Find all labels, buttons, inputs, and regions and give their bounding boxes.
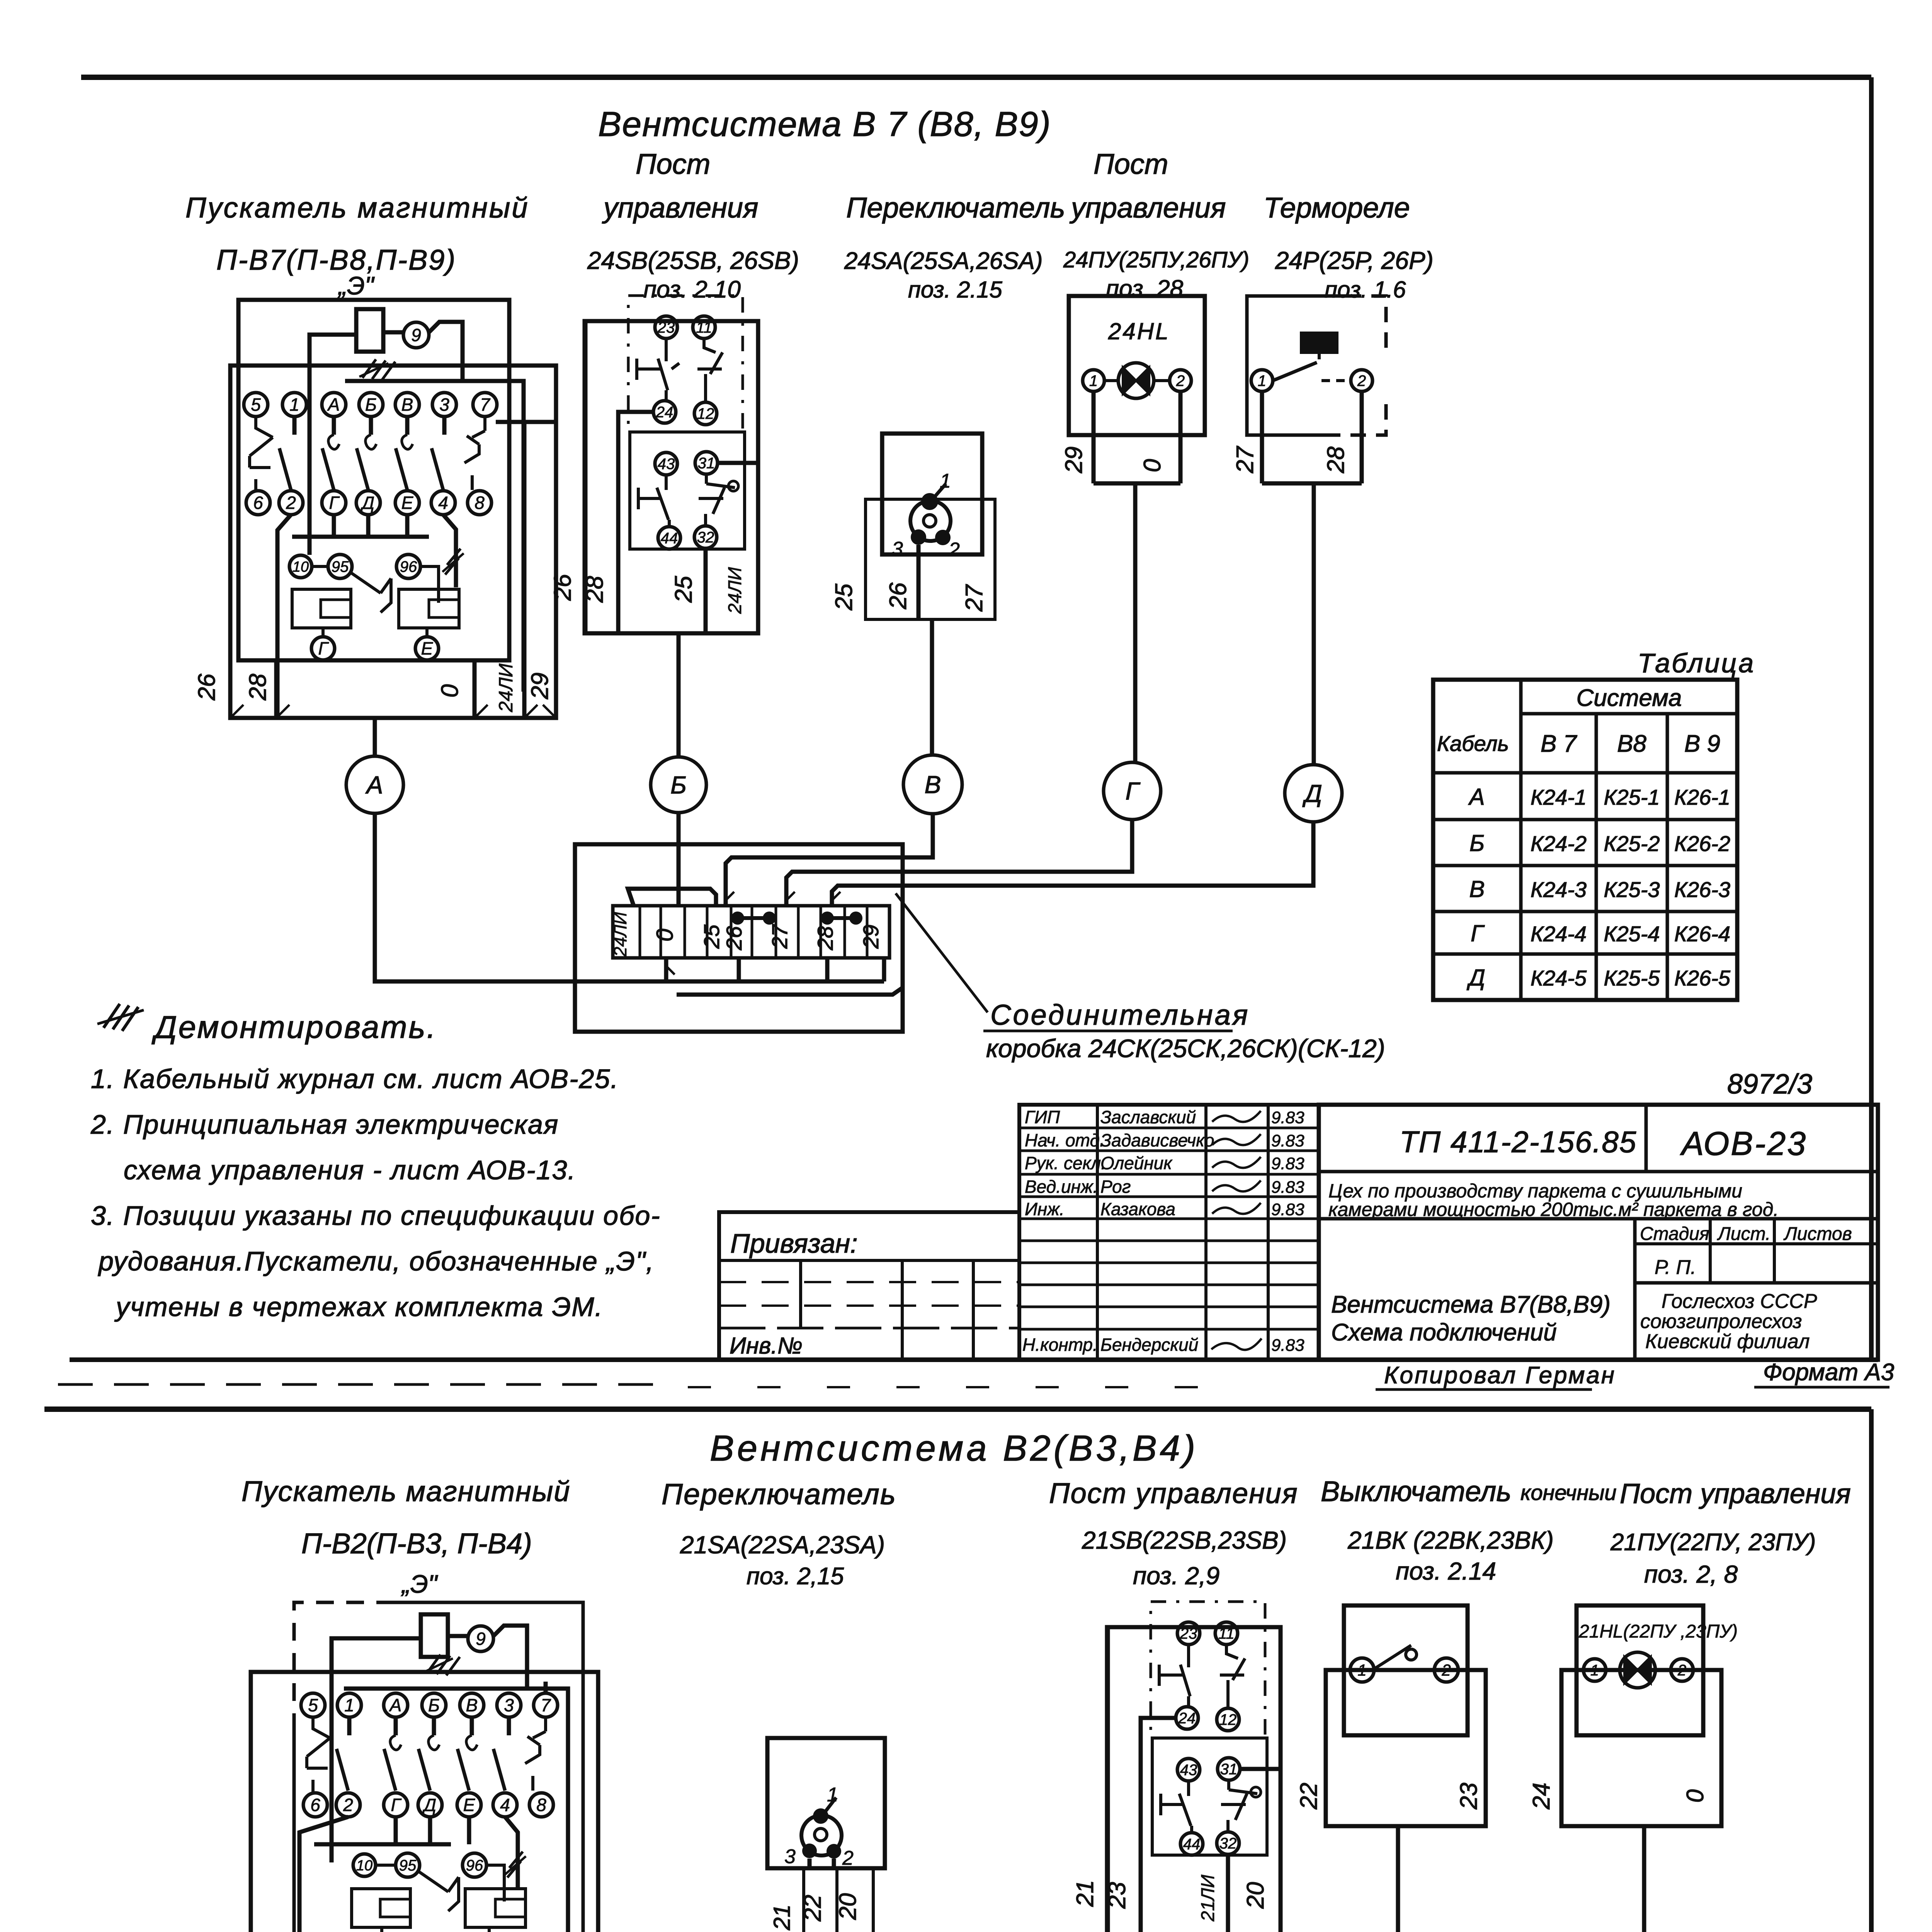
svg-text:А: А (365, 771, 383, 799)
starter П-В7 pole 7-8 NC contact (464, 417, 485, 490)
starter П-В2 bottom terminal Д (418, 1793, 442, 1817)
svg-text:Пост управления: Пост управления (1620, 1478, 1851, 1509)
svg-text:27: 27 (767, 924, 792, 949)
starter П-В7 bottom terminal 8 (468, 491, 492, 515)
svg-text:3: 3 (784, 1845, 796, 1868)
svg-text:Гослесхоз СССР: Гослесхоз СССР (1662, 1290, 1817, 1313)
svg-text:поз. 2.14: поз. 2.14 (1396, 1557, 1496, 1585)
svg-text:95: 95 (399, 1857, 417, 1874)
wire 96 П-В2 right (486, 1865, 504, 1901)
svg-text:ГИП: ГИП (1025, 1107, 1060, 1127)
svg-text:1. Кабельный журнал см. лис: 1. Кабельный журнал см. лист АОВ-25. (91, 1064, 619, 1094)
svg-text:Нач. отд.: Нач. отд. (1025, 1130, 1105, 1150)
svg-text:поз. 2, 8: поз. 2, 8 (1644, 1560, 1738, 1588)
svg-text:Пост управления: Пост управления (1049, 1477, 1298, 1509)
wire terminal 31 to right edge (718, 461, 758, 465)
svg-text:поз. 2.15: поз. 2.15 (908, 277, 1002, 303)
terminal 2 of 24Р (1351, 370, 1372, 391)
svg-text:3: 3 (892, 538, 903, 560)
svg-text:8972/3: 8972/3 (1727, 1069, 1812, 1100)
selector switch 24SA rotary symbol (910, 501, 951, 541)
heater element right П-В2 (465, 1889, 526, 1927)
starter П-В2 bottom terminal 2 (336, 1793, 360, 1817)
terminal 43 of 24SB (655, 452, 677, 475)
svg-text:Термореле: Термореле (1264, 192, 1410, 224)
junction internal jumper arc (628, 889, 716, 906)
svg-text:7: 7 (541, 1695, 551, 1715)
magnetic starter П-В2 inner box (294, 1602, 394, 1731)
svg-text:9.83: 9.83 (1271, 1131, 1304, 1150)
control post 21ПУ inner box (1577, 1605, 1703, 1735)
svg-text:К26-2: К26-2 (1674, 832, 1730, 856)
heater element right of starter (399, 589, 459, 628)
wire 24SB to cable Б (677, 633, 681, 757)
svg-text:20: 20 (835, 1893, 861, 1920)
svg-text:24ЛИ: 24ЛИ (495, 663, 517, 713)
terminal 9 of starter П-В2 coil (468, 1626, 493, 1651)
sheet 1 border frame (81, 75, 1871, 80)
svg-text:21SB(22SB,23SB): 21SB(22SB,23SB) (1082, 1526, 1287, 1554)
svg-text:3. Позиции указаны по специфи: 3. Позиции указаны по спецификации обо- (91, 1201, 661, 1231)
svg-text:9.83: 9.83 (1271, 1108, 1304, 1127)
svg-text:5: 5 (251, 395, 261, 415)
svg-text:26: 26 (722, 926, 746, 951)
cable designator Д (1285, 765, 1342, 822)
svg-text:43: 43 (658, 456, 675, 473)
jumper link 26-27 with dots (731, 912, 744, 925)
leader line to junction box label (896, 893, 988, 1012)
svg-text:1: 1 (1089, 372, 1098, 389)
svg-text:К26-1: К26-1 (1674, 785, 1730, 810)
svg-text:Инж.: Инж. (1025, 1199, 1065, 1219)
svg-text:1: 1 (1258, 372, 1266, 389)
terminal Г of starter heater (311, 637, 335, 660)
svg-text:Стадия: Стадия (1640, 1224, 1709, 1244)
svg-text:Соединительная: Соединительная (990, 999, 1250, 1031)
svg-text:Н.контр.: Н.контр. (1022, 1335, 1098, 1355)
svg-text:0: 0 (1682, 1789, 1709, 1803)
svg-text:В: В (466, 1695, 478, 1715)
signal lamp 21HL symbol (1620, 1652, 1655, 1688)
svg-text:АОВ-23: АОВ-23 (1680, 1125, 1807, 1162)
svg-text:28: 28 (245, 673, 271, 701)
svg-text:Киевский филиал: Киевский филиал (1645, 1330, 1810, 1353)
magnetic starter П-В7 inner box (238, 300, 509, 660)
svg-text:Пост: Пост (1094, 148, 1168, 180)
starter П-В7 bottom terminal Д (356, 491, 380, 515)
starter П-В2 top terminal 1 (337, 1693, 361, 1717)
svg-text:рудования.Пускатели, обозначен: рудования.Пускатели, обозначенные „Э", (98, 1246, 654, 1276)
svg-text:12: 12 (1219, 1711, 1237, 1728)
svg-text:21ЛИ: 21ЛИ (1198, 1874, 1218, 1922)
starter П-В7 top terminal 5 (244, 393, 268, 417)
svg-text:Г: Г (1126, 777, 1141, 805)
svg-text:44: 44 (1183, 1836, 1201, 1853)
svg-text:9.83: 9.83 (1271, 1200, 1304, 1219)
demontage marks on П-В2 wire (427, 1655, 460, 1675)
starter П-В2 bottom terminal 8 (529, 1793, 553, 1817)
starter П-В7 top terminal 7 (473, 393, 497, 417)
starter П-В7 bottom terminal Е (395, 491, 419, 515)
svg-text:Е: Е (421, 638, 434, 658)
terminal 43 of 21SB (1177, 1759, 1200, 1781)
svg-text:Заславский: Заславский (1100, 1107, 1196, 1127)
terminal 24 of 21SB (1176, 1707, 1198, 1729)
wire 21SB terminal 31 right (1240, 1767, 1281, 1771)
starter П-В2 pole 7-8 NC contact (525, 1717, 546, 1791)
starter П-В2 bottom terminal 6 (303, 1793, 327, 1817)
21SB lower NC contact (1161, 1781, 1192, 1833)
svg-text:Рук. секл.: Рук. секл. (1025, 1153, 1106, 1173)
svg-text:конечныи: конечныи (1520, 1480, 1617, 1505)
junction box 24СК terminal strip (613, 906, 889, 958)
svg-text:П-В2(П-В3, П-В4): П-В2(П-В3, П-В4) (301, 1527, 532, 1560)
svg-text:Г: Г (391, 1795, 401, 1815)
terminal 1 of 21ПУ (1583, 1659, 1606, 1681)
svg-text:10: 10 (356, 1857, 372, 1874)
terminal 12 of 21SB (1217, 1708, 1239, 1731)
svg-text:2: 2 (1176, 372, 1185, 389)
terminal 44 of 24SB (658, 527, 680, 549)
svg-text:А: А (389, 1695, 402, 1715)
starter П-В2 top terminal 3 (497, 1693, 521, 1717)
wire terminal 32 down (704, 548, 708, 633)
svg-text:1: 1 (344, 1695, 354, 1715)
svg-text:29: 29 (527, 673, 553, 700)
svg-text:1: 1 (1590, 1662, 1599, 1679)
svg-text:Вед.инж.: Вед.инж. (1025, 1177, 1098, 1197)
svg-text:Лист.: Лист. (1717, 1224, 1770, 1244)
svg-text:23: 23 (1104, 1882, 1131, 1909)
svg-text:25: 25 (699, 924, 724, 949)
control post 21SB outer box (1107, 1627, 1281, 1932)
svg-text:В 9: В 9 (1684, 731, 1720, 757)
svg-text:К24-1: К24-1 (1531, 785, 1587, 810)
demontage marks /// on starter top wire (362, 359, 395, 380)
wire 10 to 95 П-В2 (376, 1864, 396, 1867)
svg-text:8: 8 (536, 1795, 546, 1815)
svg-text:2: 2 (948, 539, 960, 561)
wire 21SA contact 2 down to cell (832, 1859, 836, 1868)
starter П-В7 top terminal В (395, 393, 419, 417)
jumper link 28-29 with dots (821, 912, 834, 925)
svg-text:5: 5 (308, 1695, 318, 1715)
wire terminal 7 to right bus (496, 420, 556, 424)
terminal 1 of 24Р (1251, 370, 1273, 391)
24SB NC pushbutton contact (637, 339, 679, 401)
starter П-В2 bottom terminal 4 (493, 1793, 517, 1817)
control post 21SB lower unit box (1152, 1738, 1267, 1855)
terminal 32 of 24SB (694, 526, 717, 548)
svg-text:Пускатель магнитный: Пускатель магнитный (185, 192, 529, 224)
heater element left of starter (292, 589, 351, 628)
svg-text:К25-3: К25-3 (1604, 878, 1660, 902)
control post 24ПУ box (1069, 296, 1205, 435)
cable designator Б (651, 757, 706, 813)
svg-text:„Э": „Э" (337, 271, 375, 300)
title block main frame (1319, 1105, 1878, 1360)
svg-text:Е: Е (401, 493, 414, 513)
starter П-В2 bottom terminal Е (457, 1793, 481, 1817)
wire terminal 24 to core 28 (618, 412, 653, 633)
svg-text:21НL(22ПУ ,23ПУ): 21НL(22ПУ ,23ПУ) (1578, 1621, 1738, 1642)
svg-text:Привязан:: Привязан: (730, 1228, 858, 1259)
svg-text:Д: Д (360, 493, 374, 513)
svg-text:К25-4: К25-4 (1604, 922, 1660, 946)
svg-text:25: 25 (670, 576, 697, 603)
wire coil left to vertical drop (310, 335, 356, 555)
starter П-В2 top terminal В (460, 1693, 484, 1717)
21ВК switch lever (1375, 1645, 1417, 1668)
svg-text:32: 32 (697, 529, 714, 546)
svg-text:26: 26 (194, 673, 220, 701)
svg-text:21ВК (22ВК,23ВК): 21ВК (22ВК,23ВК) (1347, 1526, 1554, 1554)
svg-text:„Э": „Э" (401, 1570, 438, 1598)
starter auxiliary terminal 96 (396, 554, 420, 578)
svg-text:9: 9 (411, 325, 421, 345)
svg-text:К25-5: К25-5 (1604, 966, 1660, 990)
21SB NO pushbutton contact (1220, 1645, 1245, 1708)
svg-text:камерами мощностью 200тыс.м² п: камерами мощностью 200тыс.м² паркета в г… (1328, 1199, 1779, 1220)
svg-text:23: 23 (1456, 1783, 1482, 1810)
svg-text:6: 6 (253, 493, 263, 513)
terminal 1 of 24ПУ (1083, 370, 1104, 391)
21SA terminal cells (804, 1868, 873, 1932)
svg-text:Рог: Рог (1100, 1177, 1131, 1197)
wires 24Р terminals down to bracket (1262, 391, 1362, 764)
svg-text:К24-2: К24-2 (1531, 832, 1587, 856)
svg-text:24ПУ(25ПУ,26ПУ): 24ПУ(25ПУ,26ПУ) (1063, 247, 1249, 272)
svg-text:28: 28 (1323, 446, 1349, 473)
svg-text:Г: Г (329, 493, 340, 513)
wire core 26 left side of 24SB (583, 321, 588, 633)
svg-text:2. Принципиальная электричес: 2. Принципиальная электрическая (90, 1109, 559, 1139)
svg-text:Вентсистема В7(В8,В9): Вентсистема В7(В8,В9) (1331, 1291, 1611, 1318)
24SB NO pushbutton contact (697, 339, 723, 402)
svg-text:32: 32 (1219, 1835, 1237, 1852)
svg-text:А: А (1468, 784, 1485, 810)
svg-text:2: 2 (1677, 1662, 1686, 1679)
junction box 24СК outer box (575, 844, 903, 1032)
svg-text:95: 95 (332, 558, 349, 575)
svg-text:22: 22 (1296, 1783, 1322, 1810)
svg-text:Олейник: Олейник (1100, 1153, 1173, 1173)
cable designator А (346, 756, 403, 813)
wires 24ПУ terminals down to bracket (1094, 391, 1180, 762)
terminal 11 of 24SB (693, 316, 715, 338)
starter auxiliary terminal 95 (328, 554, 352, 578)
svg-text:управления: управления (1069, 192, 1226, 224)
svg-text:24Р(25Р, 26Р): 24Р(25Р, 26Р) (1275, 247, 1434, 274)
magnetic starter П-В2 outer box (251, 1672, 598, 1932)
wire П-В2 terminal 7 up (544, 1682, 548, 1693)
selector switch 24SA upper box (882, 434, 982, 554)
wire 21SA contact 3 down to cell (808, 1859, 812, 1868)
24SB lower NO contact with roller (699, 474, 735, 526)
svg-text:31: 31 (698, 455, 715, 472)
svg-text:Переключатель: Переключатель (662, 1478, 896, 1511)
svg-text:В: В (1469, 876, 1485, 902)
svg-text:Выключатель: Выключатель (1321, 1475, 1511, 1507)
svg-text:К26-3: К26-3 (1674, 878, 1730, 902)
svg-text:24SB(25SB, 26SB): 24SB(25SB, 26SB) (587, 247, 799, 274)
svg-text:2: 2 (842, 1847, 854, 1869)
svg-text:9.83: 9.83 (1271, 1178, 1304, 1197)
wire horizontal bus П-В2 (344, 1689, 568, 1932)
terminal 1 of 21ВК (1350, 1658, 1374, 1682)
svg-text:поз. 2,15: поз. 2,15 (747, 1563, 844, 1590)
svg-text:24: 24 (1528, 1783, 1555, 1810)
starter auxiliary terminal 10 (289, 555, 312, 578)
starter П-В7 pole 5-6 NC contact (250, 417, 273, 491)
svg-text:24SA(25SA,26SA): 24SA(25SA,26SA) (844, 248, 1043, 274)
24SB lower NC contact (638, 475, 669, 527)
selector switch 21SA box (767, 1738, 885, 1868)
wire cable Г into strip terminal 27 (786, 820, 1132, 906)
svg-text:Демонтировать.: Демонтировать. (151, 1010, 437, 1045)
wire 24SA to cable В (930, 619, 934, 756)
svg-text:96: 96 (466, 1857, 483, 1874)
terminal 9 of starter coil (403, 322, 429, 348)
svg-text:0: 0 (437, 684, 463, 697)
starter П-В7 top terminal Б (359, 393, 383, 417)
junction below-strip wires (666, 958, 884, 981)
svg-text:В: В (925, 770, 941, 798)
svg-text:20: 20 (1242, 1882, 1269, 1909)
terminal 31 of 24SB (695, 452, 718, 474)
svg-text:Кабель: Кабель (1437, 731, 1509, 756)
svg-text:29: 29 (859, 925, 883, 949)
svg-text:Таблица: Таблица (1638, 648, 1755, 678)
terminal 23 of 21SB (1177, 1622, 1200, 1645)
svg-text:Д: Д (1466, 965, 1485, 991)
svg-text:29: 29 (1061, 447, 1087, 474)
svg-text:2: 2 (1357, 372, 1366, 389)
svg-text:0: 0 (1139, 459, 1166, 472)
svg-text:43: 43 (1180, 1762, 1197, 1779)
starter П-В2 main contacts (347, 1717, 352, 1735)
svg-text:4: 4 (438, 493, 448, 513)
svg-text:22: 22 (799, 1895, 826, 1922)
svg-text:28: 28 (582, 576, 608, 603)
svg-text:Б: Б (428, 1695, 440, 1715)
svg-text:2: 2 (1441, 1661, 1451, 1679)
cable designator Г (1104, 762, 1161, 820)
svg-text:21SA(22SA,23SA): 21SA(22SA,23SA) (680, 1531, 885, 1559)
svg-text:Г: Г (1471, 920, 1485, 946)
svg-text:7: 7 (480, 395, 490, 415)
control post 21ПУ outer box (1561, 1670, 1721, 1826)
svg-text:Инв.№: Инв.№ (730, 1333, 803, 1359)
demontage legend mark (104, 1004, 138, 1031)
svg-text:Пост: Пост (636, 148, 710, 180)
starter П-В2 terminal 95 (396, 1853, 420, 1877)
starter bottom corner ticks (230, 705, 556, 718)
wire 96 to right heater (420, 566, 439, 603)
svg-text:0: 0 (652, 929, 678, 941)
21SB NC pushbutton contact (1159, 1645, 1190, 1707)
svg-text:учтены в чертежах комплекта: учтены в чертежах комплекта ЭМ. (114, 1292, 603, 1322)
svg-text:ТП 411-2-156.85: ТП 411-2-156.85 (1400, 1125, 1637, 1159)
limit switch 21ВК outer box (1326, 1670, 1486, 1826)
starter П-В7 top terminal А (322, 393, 346, 417)
sheet 2 border frame (44, 1406, 1871, 1412)
thermal relay contact blade (1273, 362, 1317, 381)
svg-text:Переключатель: Переключатель (846, 192, 1065, 224)
svg-text:25: 25 (831, 583, 857, 611)
coil KM of starter П-В2 (421, 1614, 448, 1657)
wire cable В into strip terminal 26 (726, 814, 933, 906)
limit switch 21ВК inner box (1344, 1605, 1468, 1735)
wire cable А below designator into box (375, 814, 666, 981)
svg-text:союзгипролесхоз: союзгипролесхоз (1640, 1310, 1802, 1333)
wire coil П-В2 to terminal 9 (448, 1634, 468, 1638)
svg-text:схема управления - лист АОВ-: схема управления - лист АОВ-13. (124, 1155, 576, 1185)
svg-text:Казакова: Казакова (1100, 1199, 1175, 1219)
wire horizontal top bus (345, 381, 524, 692)
wire terminal 4 down with demontage marks (443, 515, 456, 587)
svg-text:11: 11 (696, 319, 712, 336)
svg-text:9: 9 (476, 1629, 486, 1649)
svg-text:К25-2: К25-2 (1604, 832, 1660, 856)
starter П-В2 bottom terminal Г (384, 1793, 408, 1817)
terminal Е of starter heater (415, 637, 439, 660)
svg-text:В 7: В 7 (1541, 731, 1578, 757)
starter П-В7 bottom terminal 2 (279, 491, 303, 515)
svg-text:31: 31 (1220, 1761, 1238, 1778)
svg-text:К24-4: К24-4 (1531, 922, 1587, 946)
svg-text:3: 3 (504, 1695, 514, 1715)
terminal 2 of 21ПУ (1671, 1659, 1693, 1681)
svg-text:24ЛИ: 24ЛИ (725, 567, 745, 614)
svg-text:К25-1: К25-1 (1604, 785, 1660, 810)
svg-text:поз. 2.10: поз. 2.10 (643, 276, 741, 303)
terminal 31 of 21SB (1218, 1758, 1240, 1780)
svg-text:21: 21 (1072, 1880, 1099, 1907)
svg-text:2: 2 (343, 1795, 353, 1815)
wire 10 to 95 (312, 565, 328, 568)
svg-text:Р. П.: Р. П. (1655, 1256, 1696, 1279)
terminal 44 of 21SB (1180, 1833, 1203, 1855)
привязан block (719, 1212, 1019, 1360)
svg-text:Б: Б (670, 771, 687, 799)
terminal 2 of 21ВК (1434, 1658, 1458, 1682)
svg-text:Г: Г (318, 638, 329, 658)
svg-text:26: 26 (885, 582, 912, 609)
wire П-В2 terminal 2 down (299, 1817, 348, 1932)
svg-text:Пускатель магнитный: Пускатель магнитный (241, 1475, 571, 1507)
svg-text:21ПУ(22ПУ, 23ПУ): 21ПУ(22ПУ, 23ПУ) (1610, 1529, 1816, 1556)
thermal contact 95-96 П-В2 (417, 1871, 459, 1911)
svg-text:управления: управления (602, 192, 759, 224)
heater element left П-В2 (352, 1889, 410, 1927)
starter internal bus under contacts (292, 535, 429, 539)
control post 24SB lower unit box (630, 432, 745, 549)
thermal relay heater element (1301, 333, 1337, 352)
starter П-В7 bottom terminal 6 (246, 491, 270, 515)
cable table sheet 1 (1433, 680, 1737, 1000)
junction corner ticks (666, 892, 840, 975)
starter П-В7 top terminal 1 (282, 393, 306, 417)
terminal 12 of 24SB (694, 402, 717, 425)
svg-text:Система: Система (1577, 685, 1682, 711)
svg-text:4: 4 (500, 1795, 510, 1815)
starter П-В2 top terminal 7 (534, 1693, 558, 1717)
svg-text:Вентсистема В2(В3,В4): Вентсистема В2(В3,В4) (710, 1428, 1198, 1468)
svg-text:23: 23 (657, 319, 675, 336)
starter П-В7 main contacts poles 1..3 (293, 417, 297, 435)
svg-text:Д: Д (422, 1795, 436, 1815)
